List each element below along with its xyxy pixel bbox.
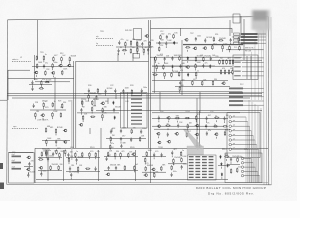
wire stub — [40, 86, 42, 88]
resistor R74 — [91, 107, 93, 112]
relay K1 contact row 5 — [131, 109, 142, 110]
wire top right drop — [229, 20, 231, 36]
connector pin row P2-2 — [229, 92, 264, 94]
resistor R82 — [109, 145, 111, 150]
wire stub — [172, 69, 174, 71]
wire — [84, 93, 146, 95]
connector J2 pin row 3 — [234, 66, 263, 67]
relay K1 contact row 9 — [131, 123, 142, 124]
wire — [168, 163, 186, 165]
resistor R113 — [144, 158, 146, 163]
wire stub — [195, 120, 197, 122]
transistor Q3 — [193, 47, 197, 50]
connector J3 outline — [227, 113, 260, 158]
resistor R79 — [131, 129, 133, 134]
resistor R26 — [52, 63, 54, 68]
wire stub — [59, 158, 61, 160]
resistor R55 — [232, 59, 234, 64]
connector J3 pin 3 — [229, 125, 250, 183]
resistor R31 — [39, 88, 44, 90]
wire stub — [149, 46, 151, 48]
resistor R1 — [125, 42, 127, 47]
wire mid-right row B — [152, 71, 232, 73]
wire stub — [120, 142, 122, 144]
capacitor C28 — [80, 108, 82, 112]
wire stage divider 1 — [63, 150, 65, 181]
border frame right outer — [270, 17, 272, 185]
resistor R50 — [179, 86, 181, 91]
wire stub — [82, 120, 84, 122]
capacitor C38 — [223, 116, 225, 120]
border frame left — [6, 20, 9, 185]
wire — [30, 109, 66, 111]
resistor R85 — [195, 115, 197, 120]
wire input (dashed) — [96, 38, 113, 40]
wire stub — [110, 142, 112, 144]
wire — [116, 46, 152, 48]
resistor R105 — [85, 168, 90, 170]
diode D5 — [187, 73, 189, 77]
capacitor C10 — [230, 38, 232, 42]
capacitor C52 — [70, 173, 72, 177]
IC U1 pin grid — [189, 156, 214, 178]
shaded box (scan artifact) — [187, 146, 204, 155]
wire input (dashed) — [96, 45, 113, 47]
diode D7 — [114, 116, 116, 120]
resistor R44 — [171, 72, 173, 77]
resistor R104 — [77, 166, 79, 171]
resistor R64 — [52, 112, 54, 117]
resistor R96 — [38, 159, 43, 161]
resistor R91 — [186, 132, 188, 137]
diode D10 — [227, 164, 229, 168]
transistor Q12 — [63, 129, 67, 132]
resistor R42 — [153, 74, 158, 76]
capacitor C36 — [158, 116, 160, 120]
wire — [106, 138, 146, 140]
wire stub — [187, 61, 189, 63]
resistor R14 — [238, 37, 240, 42]
resistor R86 — [214, 117, 219, 119]
wire inside K1 — [123, 93, 125, 129]
wire mid-right bottom rail — [152, 91, 242, 93]
wire link mid 2 — [199, 92, 201, 113]
resistor R95 — [59, 153, 61, 158]
transistor Q7 — [34, 71, 38, 74]
wire (dashed) — [12, 61, 31, 63]
wire stub — [81, 105, 83, 107]
resistor R56 — [220, 69, 222, 74]
resistor R98 — [58, 165, 60, 170]
wire stub — [42, 118, 44, 120]
resistor R89 — [213, 126, 218, 128]
resistor R59 — [232, 69, 234, 74]
wire stage divider 2 — [98, 150, 100, 181]
resistor R68 — [46, 139, 48, 144]
resistor R11 — [158, 46, 160, 51]
wire stub — [101, 119, 103, 121]
wire stub — [206, 121, 208, 123]
small box top-right — [233, 14, 240, 23]
transistor Q28 — [131, 153, 135, 156]
border frame bottom — [7, 184, 272, 186]
wire stub — [55, 145, 57, 147]
diode D2 — [187, 57, 189, 61]
resistor R103 — [68, 157, 70, 162]
resistor R97 — [50, 165, 52, 170]
capacitor C2 — [141, 42, 143, 46]
resistor R4 — [149, 41, 151, 46]
wire stub — [226, 159, 228, 161]
capacitor C34 — [130, 138, 132, 142]
wire stub — [230, 43, 232, 45]
wire stub — [95, 157, 97, 159]
wire link CB-CC — [89, 128, 91, 134]
capacitor C39 — [177, 124, 179, 128]
diode D4 — [209, 64, 211, 68]
connector SK2 outline — [133, 54, 140, 59]
wire inside J2 b — [250, 56, 252, 79]
resistor R66 — [45, 128, 47, 133]
resistor R94 — [45, 151, 47, 156]
resistor R116 — [154, 173, 156, 178]
wire stub — [88, 157, 90, 159]
border frame top — [8, 17, 268, 20]
resistor R41 — [195, 64, 197, 69]
wire left col — [34, 55, 36, 80]
transistor Q10 — [221, 82, 225, 85]
wire vertical bus (fold) — [150, 20, 152, 183]
wire — [142, 171, 166, 173]
resistor R43 — [164, 72, 166, 77]
wire vertical left-mid — [73, 61, 75, 148]
resistor R37 — [195, 57, 197, 62]
capacitor C41 — [167, 132, 169, 136]
resistor R93 — [41, 152, 43, 157]
resistor R57 — [224, 69, 226, 74]
wire mid-right col B — [196, 98, 198, 148]
wire stub — [224, 129, 226, 131]
capacitor C31 — [120, 129, 122, 133]
diode D3 — [172, 65, 174, 69]
wire stub — [55, 134, 57, 136]
resistor R63 — [35, 112, 37, 117]
IC U1 outline — [188, 155, 217, 180]
wire mid-right top rail — [150, 56, 242, 58]
capacitor C9 — [204, 38, 206, 42]
relay K1 contact row 3 — [131, 102, 142, 103]
transistor Q13 — [63, 141, 67, 144]
resistor R90 — [223, 126, 228, 128]
resistor R71 — [64, 149, 66, 154]
resistor R121 — [224, 156, 229, 158]
connector J4 pin 5 — [241, 175, 259, 183]
capacitor C54 — [108, 166, 110, 170]
capacitor C57 — [161, 153, 163, 157]
wire stub — [171, 155, 173, 157]
wire stub — [158, 120, 160, 122]
resistor R119 — [181, 157, 183, 162]
transistor Q22 — [214, 133, 218, 136]
wire stub — [172, 164, 174, 166]
connector J4 pin 4 — [241, 170, 257, 182]
connector J3 pin 4 — [229, 130, 251, 183]
capacitor C23 — [179, 64, 181, 68]
capacitor C7 — [165, 41, 167, 45]
transistor Q11 — [40, 114, 44, 117]
connector pin row P2-3 — [229, 96, 264, 98]
capacitor C20 — [164, 57, 166, 61]
wire — [142, 156, 166, 158]
wire stub — [195, 77, 197, 79]
wire stub — [118, 53, 120, 55]
capacitor C8 — [195, 37, 197, 41]
capacitor C26 — [33, 104, 35, 108]
wire stub — [67, 158, 69, 160]
wire bottom-left box top — [9, 152, 34, 154]
resistor R117 — [180, 151, 182, 156]
wire stub — [144, 163, 146, 165]
transistor Q27 — [39, 166, 43, 169]
wire — [152, 65, 215, 67]
transistor Q26 — [26, 168, 30, 171]
terminal bar TB1-1 — [12, 156, 22, 158]
resistor R88 — [187, 124, 189, 129]
wire stub — [40, 170, 42, 172]
wire stage divider 3 — [135, 150, 137, 181]
connector J2 pin row 1 — [234, 57, 263, 58]
wire stub — [28, 172, 30, 174]
resistor R87 — [165, 125, 170, 127]
wire inside J2 — [246, 56, 248, 79]
svg-text:Drg No. 805/2/005 Rev.: Drg No. 805/2/005 Rev. — [208, 192, 254, 196]
fold shading band upper — [252, 34, 262, 100]
wire stub — [51, 117, 53, 119]
wire — [228, 164, 240, 166]
capacitor C18 — [141, 89, 143, 93]
capacitor C61 — [230, 157, 232, 161]
wire stub — [187, 129, 189, 131]
capacitor C16 — [114, 89, 116, 93]
capacitor C1 — [118, 41, 120, 45]
wire stub — [64, 155, 66, 157]
wire stub — [68, 162, 70, 164]
resistor R100 — [81, 152, 83, 157]
wire stub — [147, 53, 149, 55]
resistor R110 — [124, 165, 126, 170]
resistor R106 — [107, 152, 109, 157]
wire stub — [196, 128, 198, 130]
resistor R3 — [136, 41, 138, 46]
connector J2 pin row 2 — [234, 62, 263, 63]
resistor R51 — [219, 59, 221, 64]
wire stub — [31, 85, 33, 87]
resistor R70 — [56, 149, 58, 154]
resistor R8 — [143, 48, 145, 53]
resistor R20 — [36, 56, 38, 61]
capacitor C5 — [166, 35, 168, 39]
wire mid rail B — [152, 125, 224, 127]
diode D9 — [221, 162, 223, 166]
resistor R15 — [185, 47, 190, 49]
resistor R6 — [130, 48, 132, 53]
capacitor C46 — [47, 157, 49, 161]
wire mid rail A — [152, 118, 228, 120]
capacitor C47 — [40, 172, 42, 176]
wire stub — [70, 178, 72, 180]
resistor R118 — [173, 158, 175, 163]
wire stub — [165, 46, 167, 48]
capacitor C19 — [95, 95, 97, 99]
resistor R40 — [163, 65, 165, 70]
resistor R29 — [41, 80, 43, 85]
resistor R47 — [192, 80, 194, 85]
resistor R76 — [82, 115, 84, 120]
wire — [183, 44, 243, 46]
capacitor C3 — [118, 49, 120, 53]
resistor R120 — [171, 165, 173, 170]
connector J3 pin 7 — [229, 143, 257, 183]
connector pin row P2-1 — [229, 88, 264, 90]
wire bottom box top — [35, 147, 268, 149]
resistor R123 — [230, 169, 232, 174]
transistor Q5 — [58, 64, 62, 67]
wire stub — [136, 47, 138, 49]
resistor R25 — [36, 64, 38, 69]
capacitor C42 — [206, 131, 208, 135]
wire stub — [124, 47, 126, 49]
resistor R22 — [53, 56, 55, 61]
wire top-right drop A — [240, 16, 242, 33]
resistor R2 — [130, 40, 132, 45]
transistor Q25 — [26, 156, 30, 159]
wire stub — [69, 62, 71, 64]
resistor R62 — [61, 103, 63, 108]
connector J3 pin 6 — [229, 139, 255, 183]
wire — [156, 42, 178, 44]
transistor Q17 — [157, 125, 161, 128]
wire inside K1 b — [127, 93, 129, 129]
wire link mid — [159, 92, 161, 111]
wire stub — [34, 118, 36, 120]
transistor Q4 — [203, 47, 207, 50]
resistor R58 — [228, 69, 230, 74]
wire stub — [133, 171, 135, 173]
resistor R53 — [226, 59, 228, 64]
resistor R111 — [134, 165, 136, 170]
wire vertical mid-right — [181, 40, 183, 95]
wire mid-right row C — [152, 80, 228, 82]
wire stub — [195, 69, 197, 71]
resistor R81 — [139, 137, 141, 142]
wire stub — [156, 70, 158, 72]
wire — [154, 128, 230, 130]
relay K1 contact row 8 — [131, 120, 142, 121]
wire stub — [61, 62, 63, 64]
capacitor C37 — [206, 116, 208, 120]
wire stub — [45, 144, 47, 146]
wire stub — [114, 158, 116, 160]
resistor R109 — [128, 153, 130, 158]
border frame right inner 2 — [263, 30, 265, 185]
wire left edge link — [7, 70, 9, 100]
capacitor C56 — [153, 153, 155, 157]
transistor Q8 — [51, 72, 55, 75]
wire horizontal right — [182, 59, 262, 61]
resistor R83 — [175, 117, 180, 119]
border frame right — [267, 17, 269, 185]
transistor Q29 — [106, 173, 110, 176]
wire — [38, 170, 62, 172]
resistor R102 — [95, 152, 97, 157]
capacitor C59 — [181, 165, 183, 169]
wire horizontal box top — [76, 60, 149, 62]
wire stub — [230, 162, 232, 164]
resistor R35 — [155, 56, 157, 61]
wire stub — [76, 163, 78, 165]
resistor R34 — [88, 94, 90, 99]
wire bus drop 3 — [107, 98, 109, 104]
wire — [24, 166, 33, 168]
resistor R61 — [52, 102, 54, 107]
wire top row bus — [183, 43, 243, 45]
resistor R18 — [229, 45, 231, 50]
wire — [42, 140, 70, 142]
transistor Q16 — [166, 117, 170, 120]
resistor R9 — [160, 35, 162, 40]
resistor R36 — [179, 56, 181, 61]
resistor R84 — [185, 117, 190, 119]
transistor Q2 — [184, 38, 188, 41]
wire bus drop 2 — [94, 98, 96, 106]
wire vertical left-mid 2 — [75, 61, 77, 148]
bottom-right box outline — [225, 153, 262, 183]
wire vertical top link — [180, 28, 182, 36]
wire horizontal bus A — [7, 93, 262, 95]
wire (dashed) — [12, 128, 38, 130]
capacitor C27 — [55, 140, 57, 144]
transistor Q24 — [167, 140, 171, 143]
capacitor C12 — [31, 80, 33, 84]
wire horizontal bus D — [96, 110, 262, 112]
connector J4 pin 1 — [241, 157, 251, 182]
capacitor C32 — [140, 129, 142, 133]
resistor R72 — [81, 100, 83, 105]
bottom-left box outline — [9, 153, 34, 184]
wire stub — [80, 113, 82, 115]
capacitor C6 — [158, 41, 160, 45]
wire stub — [43, 61, 45, 63]
connector pin row P1-1 — [234, 33, 267, 35]
resistor R38 — [203, 57, 205, 62]
connector pin row P1-4 — [234, 42, 267, 44]
wire stub — [221, 177, 223, 179]
wire stub — [43, 108, 45, 110]
wire — [66, 171, 100, 173]
capacitor C43 — [28, 162, 30, 166]
wire link top cluster to box 2 — [132, 53, 134, 61]
capacitor C30 — [110, 129, 112, 133]
resistor R69 — [46, 150, 48, 155]
wire — [29, 84, 52, 86]
connector pin row P1-3 — [234, 39, 267, 41]
capacitor C25 — [179, 81, 181, 85]
capacitor C21 — [171, 56, 173, 60]
wire mid-right row A — [152, 65, 232, 67]
wire link mid-col — [100, 128, 102, 148]
capacitor C50 — [69, 166, 71, 170]
wire vertical right — [243, 19, 245, 60]
